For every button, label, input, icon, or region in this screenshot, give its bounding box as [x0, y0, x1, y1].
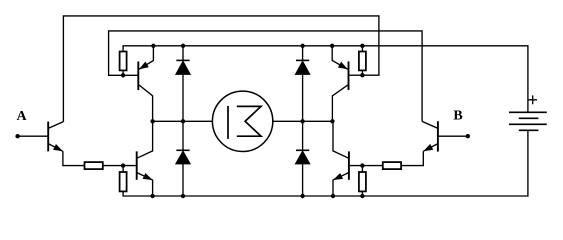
diode D4 (lower right freewheel) [295, 121, 309, 196]
wire net: Q1 collector to top rail to Q5 base node (cross-coupling A) [63, 16, 379, 122]
label B (input B) [453, 109, 462, 124]
wire: R3 to node to Q4 base [103, 165, 137, 167]
node: R2 at V+ rail [360, 44, 364, 48]
wire net: Q2 collector to second rail to Q3 base node (cross-coupling B) [109, 31, 423, 122]
node: Q6 base / R6 top [360, 163, 364, 167]
resistor R6 (lower right pull-down) [359, 166, 366, 196]
transistor Q4 (lower-left NPN) [137, 121, 153, 196]
node: D4 at bottom rail [300, 194, 304, 198]
wire: left motor rail (mid rail left segment) [153, 120, 213, 122]
diode D2 (lower left freewheel) [176, 121, 190, 196]
node: R6 at bottom rail [360, 194, 364, 198]
diode D1 (upper left freewheel) [176, 46, 190, 122]
wire: Q1 emitter to R3 [63, 151, 85, 165]
terminal input B [466, 134, 470, 138]
transistor Q6 (lower-right NPN) [333, 121, 349, 196]
battery plus polarity label [528, 95, 537, 104]
wire: Q6 base node to R4 [349, 165, 383, 167]
wire net: ground/bottom rail from R5 bottom to battery negative [123, 130, 528, 196]
svg-text:B: B [453, 109, 462, 124]
wire net: positive supply rail V+ from R1 top to battery positive [123, 46, 528, 113]
node: Q4 emitter at bottom rail [150, 194, 154, 198]
resistor R4 (B emitter series) [383, 162, 401, 169]
node: D3-D4 at right mid rail [300, 119, 304, 123]
node: Q5 base / R2 bottom [360, 73, 364, 77]
battery BT1 [509, 112, 547, 130]
node: D2 at bottom rail [181, 194, 185, 198]
resistor R2 (upper right pull-up) [359, 46, 366, 75]
resistor R1 (upper left pull-up) [120, 52, 127, 76]
svg-text:A: A [17, 109, 28, 124]
wire: R4 to Q2 emitter [401, 151, 423, 165]
node: D3 at V+ rail [300, 44, 304, 48]
label A (input A) [17, 109, 28, 124]
terminal input A [15, 134, 19, 138]
node: right mid rail junction [330, 119, 334, 123]
resistor R5 (lower left pull-down) [120, 166, 127, 192]
node: D1-D2 at left mid rail [181, 119, 185, 123]
transistor Q1 (input A, NPN) [48, 122, 63, 152]
transistor Q5 (upper-right PNP) [332, 46, 362, 122]
node: Q3 emitter at V+ rail [151, 44, 155, 48]
wire: input B to Q2 base [438, 135, 468, 137]
diode D3 (upper right freewheel) [295, 46, 309, 122]
transistor Q2 (input B, NPN) [422, 121, 438, 151]
node: Q3 base / R1 bottom [121, 73, 125, 77]
wire: input A to Q1 base [18, 135, 49, 137]
transistor Q3 (upper-left PNP) [123, 46, 153, 122]
node: Q6 emitter at bottom rail [331, 194, 335, 198]
node: left mid rail junction [150, 119, 154, 123]
node: D1 at V+ rail [181, 44, 185, 48]
wire: right motor rail (mid rail right segment) [273, 120, 333, 122]
node: Q5 emitter at V+ rail [330, 44, 334, 48]
motor M1 (DC motor, rotated-M symbol) [212, 91, 272, 151]
resistor R3 (A emitter series) [85, 162, 103, 169]
node: Q4 base / R5 top [121, 163, 125, 167]
